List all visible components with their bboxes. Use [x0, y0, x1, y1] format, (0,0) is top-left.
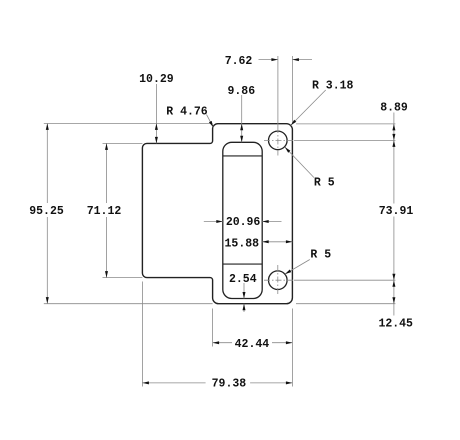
extension line left-portion bottom: [103, 277, 143, 279]
extension line left edge bottom (79.38): [141, 282, 143, 387]
extension line right edge top (7.62): [291, 56, 293, 123]
extension line bottom-right corner (12.45): [296, 303, 395, 305]
svg-text:R 3.18: R 3.18: [312, 79, 354, 92]
dimension 73.91: [393, 140, 395, 203]
slot top chord line: [223, 155, 262, 157]
svg-text:9.86: 9.86: [227, 85, 255, 98]
dimension 8.89: [393, 113, 395, 141]
svg-text:R 5: R 5: [314, 177, 335, 190]
dimension 7.62: [259, 59, 278, 61]
dimension 10.29: [155, 84, 157, 143]
hole top R5: [269, 131, 288, 150]
dimension 12.45: [393, 280, 395, 304]
dimension R 5 bottom leader: [285, 260, 310, 275]
svg-text:71.12: 71.12: [87, 205, 122, 218]
svg-text:20.96: 20.96: [226, 216, 261, 229]
centerline bottom hole horizontal: [264, 279, 294, 281]
centerline top hole vertical: [277, 56, 279, 127]
extension line top-right corner (8.89): [296, 123, 395, 125]
svg-text:15.88: 15.88: [225, 237, 260, 250]
dimension R 4.76 leader: [207, 115, 214, 128]
dimension R 5 top leader: [285, 147, 314, 178]
dimension 71.12: [106, 143, 108, 203]
centerline bottom hole vertical: [277, 265, 279, 295]
hole bottom R5: [269, 271, 288, 290]
dimension 15.88: [262, 241, 292, 243]
svg-text:R 4.76: R 4.76: [166, 105, 208, 118]
extension line bottom step (42.44): [212, 309, 214, 347]
svg-text:79.38: 79.38: [212, 377, 247, 390]
svg-text:73.91: 73.91: [379, 205, 414, 218]
dimension 95.25: [46, 123, 48, 203]
extension line top edge left: [44, 123, 213, 125]
dimension 20.96: [204, 221, 223, 223]
svg-text:8.89: 8.89: [380, 102, 408, 115]
extension line right edge bottom (42.44 and 79.38): [291, 309, 293, 387]
svg-text:12.45: 12.45: [378, 318, 413, 331]
dimension 2.54: [243, 283, 245, 299]
extension line left-portion top: [103, 142, 143, 144]
svg-text:95.25: 95.25: [29, 205, 64, 218]
slot cutout: [223, 142, 262, 298]
extension line bottom edge left: [44, 303, 213, 305]
svg-text:R 5: R 5: [310, 249, 331, 262]
part outline: [142, 124, 292, 304]
slot bottom chord line: [223, 263, 262, 265]
dimension 42.44: [213, 342, 232, 344]
dimension 9.86: [241, 95, 243, 142]
svg-text:10.29: 10.29: [139, 73, 174, 86]
centerline top hole horizontal: [264, 139, 294, 141]
svg-text:42.44: 42.44: [235, 338, 270, 351]
svg-text:7.62: 7.62: [225, 55, 253, 68]
dimension R 3.18 leader: [291, 90, 326, 125]
dimension 79.38: [142, 382, 205, 384]
svg-text:2.54: 2.54: [229, 273, 257, 286]
